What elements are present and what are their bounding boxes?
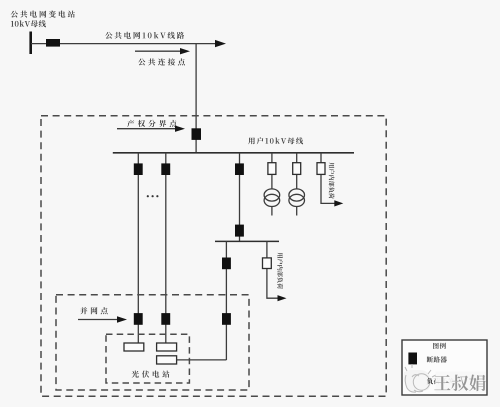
arrow: 并网点 pointer [78, 319, 119, 321]
transformer T2 (two overlapping ellipses) [289, 189, 305, 201]
user 10kV busbar [113, 152, 354, 154]
inverter INV2 (hollow rect) [157, 343, 177, 351]
wire: stub below T2 [296, 207, 298, 216]
transformer T1 (two overlapping ellipses) [264, 189, 280, 201]
breaker QF6 at grid-connection point, feeder 2 [161, 313, 170, 325]
wire: PV feeder 1 [137, 153, 139, 343]
breaker QF4 on feeder 3 [235, 163, 244, 175]
label: 公共电网10kV线路 [105, 32, 184, 39]
breaker QF3 on PV feeder 2 [161, 163, 170, 175]
wire: INV3 to feeder 3a [177, 359, 227, 361]
breaker QF1 at property demarcation point [192, 128, 202, 140]
label: 负荷开关 (hidden by watermark) [427, 378, 454, 384]
label: 图例 [433, 343, 446, 349]
breaker QF8 at grid-connection point, feeder 3a [222, 313, 231, 325]
ellipsis dots between feeder 1 and 2 [147, 195, 149, 197]
watermark white backing [436, 372, 487, 394]
label: 并网点 [80, 307, 107, 314]
wire: PV feeder 2 [165, 153, 167, 343]
legend symbol: load switch (hollow) [408, 374, 417, 385]
wire: feeder 3a (PV branch via secondary bus) [225, 241, 227, 360]
watermark doodle (grey sketch) [404, 364, 436, 392]
arrowhead of public grid line [215, 40, 226, 47]
label: 负荷开关 first char visible over doodle [427, 378, 433, 384]
label: 用户10kV母线 [248, 137, 303, 144]
dashed box: grid-connection point area [56, 295, 249, 390]
breaker QF2 on PV feeder 1 [134, 163, 143, 175]
breaker QF4b lower on feeder 3 [235, 225, 244, 237]
wire: public grid 10kV line [31, 43, 217, 45]
label: 用户内部负荷 (vertical, feeder 3b) [277, 253, 283, 289]
label: 用户内部负荷 (vertical, feeder 6) [329, 162, 335, 198]
label: 断路器 [427, 356, 447, 362]
public grid 10kV busbar (thick bar) [29, 32, 32, 55]
label: 公共连接点 [138, 58, 185, 65]
dashed box: PV station [106, 334, 189, 383]
inverter INV1 (hollow rect) [124, 343, 144, 351]
load switch FU1 (hollow) on feeder 3b [263, 258, 272, 269]
arrow: 产权分界点 pointer [117, 128, 177, 130]
label: 产权分界点 [127, 120, 176, 127]
legend box [402, 340, 487, 395]
label: 光伏电站 [132, 371, 170, 378]
watermark text 王叔娟 [434, 375, 485, 392]
inverter INV3 (hollow rect) [157, 356, 177, 364]
breaker QF7 on feeder 3a [222, 258, 231, 270]
wire: feeder 3 down to secondary bus [239, 153, 241, 242]
secondary busbar [215, 240, 279, 242]
arrowhead: load 6 [334, 200, 343, 206]
wire: stub below T1 [271, 207, 273, 216]
label: 公共电网变电站 / 10kV母线 [11, 11, 75, 18]
wire: feeder from PCC down to user busbar [195, 44, 197, 153]
wire: feeder 4 [271, 153, 273, 190]
wire: feeder 5 [296, 153, 298, 190]
wire: feeder 3b to user internal load [267, 241, 279, 298]
load switch FU2 (hollow) on feeder 4 [268, 163, 276, 175]
legend symbol: breaker [408, 353, 417, 365]
load switch FU3 (hollow) on feeder 5 [293, 163, 301, 175]
wire: feeder 6 to user internal load [321, 153, 336, 204]
arrow: 公共连接点 pointer [135, 50, 182, 52]
breaker QF0 on public grid line [46, 39, 60, 47]
outer dashed boundary box (user installation) [41, 116, 386, 397]
breaker QF5 at grid-connection point, feeder 1 [134, 313, 143, 325]
load switch FU4 (hollow) on feeder 6 [317, 163, 325, 175]
arrowhead: load 3b [278, 295, 287, 301]
